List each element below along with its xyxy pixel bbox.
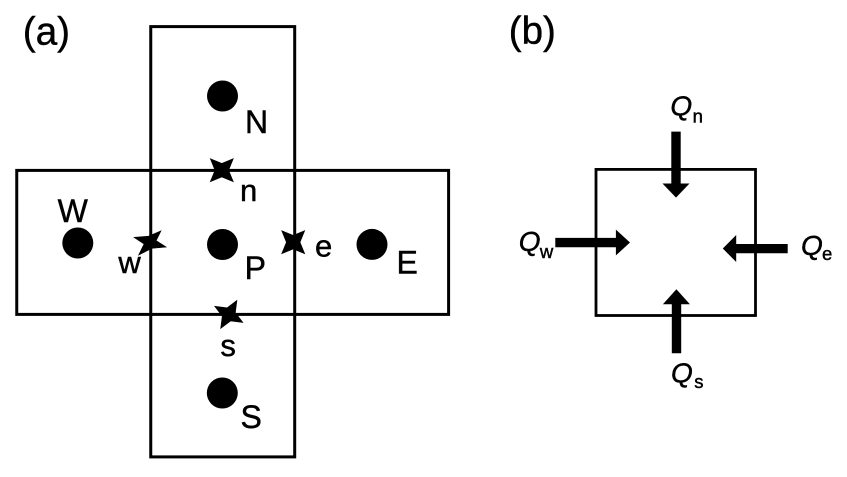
svg-text:S: S <box>241 399 262 435</box>
svg-text:e: e <box>315 229 332 264</box>
svg-text:N: N <box>245 104 268 140</box>
svg-text:E: E <box>397 244 418 280</box>
svg-text:(b): (b) <box>509 10 556 53</box>
svg-text:P: P <box>245 250 266 286</box>
svg-text:(a): (a) <box>23 10 70 53</box>
svg-text:s: s <box>220 328 236 363</box>
svg-text:n: n <box>693 105 703 126</box>
svg-text:W: W <box>58 193 89 229</box>
svg-text:Q: Q <box>519 226 541 257</box>
svg-text:n: n <box>240 173 257 208</box>
svg-text:Q: Q <box>801 230 823 261</box>
svg-text:Q: Q <box>670 91 692 122</box>
svg-text:Q: Q <box>671 357 693 388</box>
svg-text:w: w <box>539 241 554 262</box>
svg-text:s: s <box>694 371 703 392</box>
svg-text:e: e <box>822 243 832 264</box>
svg-text:w: w <box>117 245 141 280</box>
